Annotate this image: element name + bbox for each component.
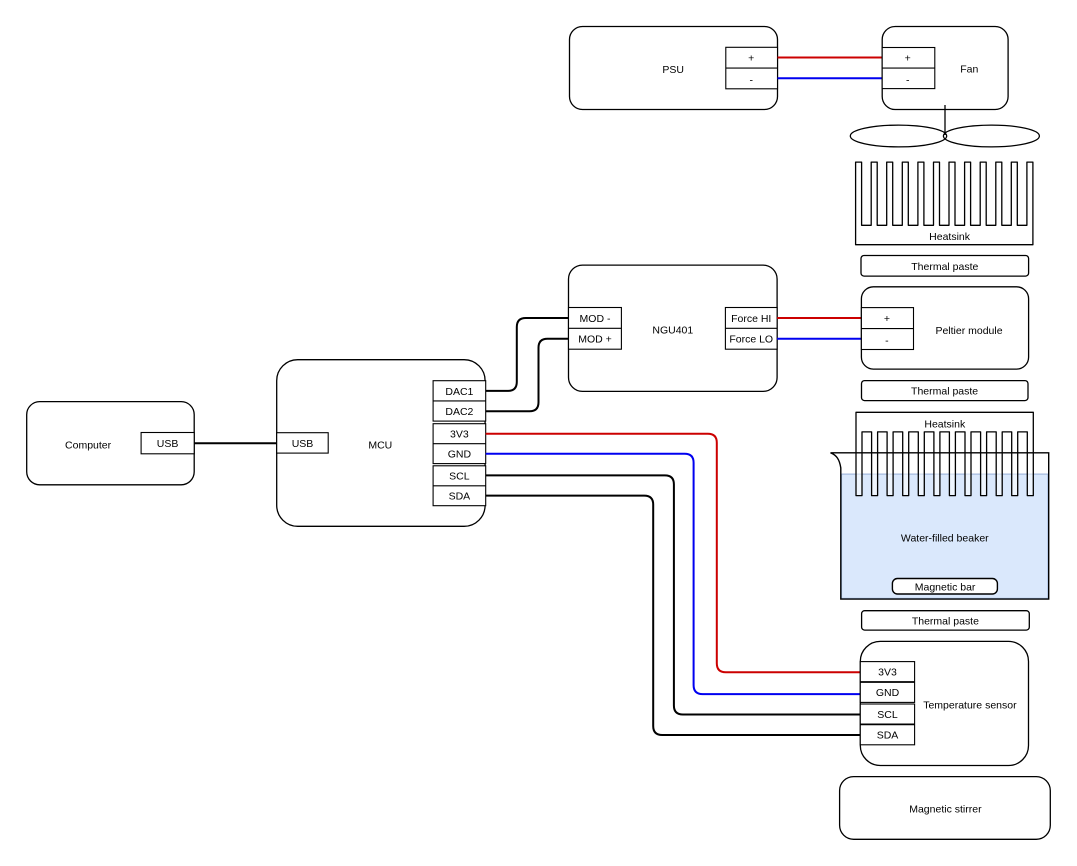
NGU401 MOD ports [569, 308, 622, 350]
svg-text:SDA: SDA [877, 730, 899, 742]
Temperature sensor SCL/SDA ports [860, 704, 914, 745]
svg-text:GND: GND [448, 449, 472, 461]
svg-text:Temperature sensor: Temperature sensor [923, 699, 1017, 711]
wire Fan to blades [944, 105, 946, 135]
Computer USB port [141, 433, 194, 454]
thermal paste 3 [862, 611, 1030, 630]
NGU401 [569, 265, 778, 391]
svg-text:Thermal paste: Thermal paste [911, 386, 978, 398]
svg-text:+: + [905, 52, 911, 64]
svg-text:Computer: Computer [65, 440, 112, 452]
beaker water [842, 474, 1049, 598]
svg-text:+: + [748, 52, 754, 64]
svg-text:MOD +: MOD + [578, 334, 612, 346]
svg-text:Force LO: Force LO [729, 334, 773, 346]
svg-text:Fan: Fan [960, 63, 978, 75]
svg-text:MOD -: MOD - [580, 313, 611, 325]
heatsink upper [856, 162, 1033, 245]
wire MCU 3V3 to Temperature sensor 3V3 (red) [486, 434, 861, 673]
PSU [570, 27, 778, 110]
svg-text:SCL: SCL [449, 471, 470, 483]
Peltier terminal block [861, 308, 913, 350]
Magnetic stirrer [840, 777, 1051, 840]
MCU USB port [277, 433, 329, 453]
wire PSU + to Fan + (red) [778, 57, 883, 59]
svg-text:DAC2: DAC2 [445, 406, 473, 418]
svg-text:Water-filled beaker: Water-filled beaker [901, 533, 989, 545]
svg-text:Thermal paste: Thermal paste [911, 261, 978, 273]
svg-text:MCU: MCU [368, 440, 392, 452]
wire Force HI to Peltier + (red) [777, 317, 861, 319]
svg-text:NGU401: NGU401 [652, 325, 693, 337]
thermal paste 2 [862, 381, 1029, 401]
svg-text:-: - [885, 335, 889, 347]
MCU 3V3/GND ports [433, 424, 486, 464]
Temperature sensor [860, 641, 1028, 765]
wire Computer USB to MCU USB [194, 442, 277, 444]
heatsink lower (in beaker) [856, 412, 1033, 495]
wire PSU - to Fan - (blue) [778, 77, 883, 79]
wire MCU SCL to Temperature sensor SCL [486, 475, 861, 714]
wire MCU GND to Temperature sensor GND (blue) [486, 454, 861, 694]
svg-text:SCL: SCL [877, 709, 898, 721]
thermal paste 1 [861, 256, 1029, 277]
svg-text:-: - [906, 74, 910, 86]
water-filled beaker outline [831, 453, 1049, 599]
MCU DAC1/DAC2 ports [433, 381, 486, 421]
wire Force LO to Peltier - (blue) [777, 338, 861, 340]
wire MCU DAC1 to NGU401 MOD- [486, 318, 569, 391]
magnetic bar [892, 579, 997, 595]
Peltier module [861, 287, 1028, 369]
Computer [27, 402, 195, 485]
svg-text:GND: GND [876, 687, 900, 699]
svg-text:Force HI: Force HI [731, 313, 771, 325]
svg-text:USB: USB [157, 438, 179, 450]
svg-text:Peltier module: Peltier module [935, 325, 1002, 337]
svg-text:Magnetic stirrer: Magnetic stirrer [909, 803, 982, 815]
svg-text:Heatsink: Heatsink [924, 419, 966, 431]
svg-text:PSU: PSU [662, 64, 684, 76]
svg-text:-: - [749, 74, 753, 86]
fan blade right [943, 125, 1039, 147]
MCU [277, 360, 485, 527]
svg-text:Magnetic bar: Magnetic bar [915, 581, 976, 593]
Fan [882, 27, 1008, 110]
Fan terminal block [882, 48, 935, 89]
svg-text:SDA: SDA [449, 491, 471, 503]
svg-text:DAC1: DAC1 [445, 386, 473, 398]
fan blade left [850, 125, 946, 147]
MCU SCL/SDA ports [433, 466, 486, 506]
Temperature sensor 3V3/GND ports [860, 662, 914, 703]
NGU401 Force ports [725, 308, 777, 350]
svg-text:USB: USB [292, 438, 314, 450]
svg-text:Thermal paste: Thermal paste [912, 615, 979, 627]
svg-text:3V3: 3V3 [878, 667, 897, 679]
wire MCU DAC2 to NGU401 MOD+ [486, 339, 569, 411]
svg-text:+: + [884, 313, 890, 325]
svg-text:3V3: 3V3 [450, 429, 469, 441]
wire MCU SDA to Temperature sensor SDA [486, 496, 861, 735]
svg-text:Heatsink: Heatsink [929, 231, 971, 243]
PSU terminal block [726, 47, 778, 89]
